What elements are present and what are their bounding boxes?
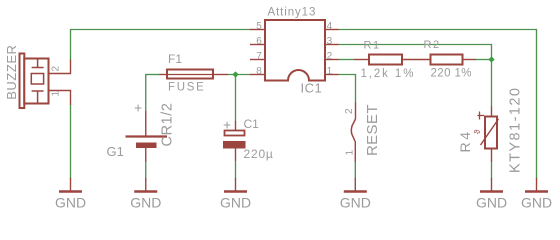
svg-text:4: 4: [327, 21, 333, 32]
svg-text:KTY81-120: KTY81-120: [508, 87, 524, 173]
wire IC pin2 to R1: [339, 59, 355, 61]
svg-text:ϑ: ϑ: [473, 129, 482, 134]
wire buzzer pin1 to GND: [70, 105, 72, 179]
wire junction down to R4: [491, 60, 493, 108]
svg-text:+: +: [223, 117, 231, 133]
wire switch to GND: [354, 162, 356, 179]
ground buzzer: [55, 178, 86, 211]
buzzer pin 2: [49, 60, 71, 74]
svg-text:5: 5: [256, 21, 262, 32]
resistor R1: [354, 40, 415, 81]
wire buzzer pin2 to IC pin5: [71, 30, 251, 60]
svg-text:2: 2: [51, 66, 62, 72]
wire fuse to junction to IC pin8: [228, 74, 250, 76]
svg-text:BUZZER: BUZZER: [4, 44, 19, 99]
svg-text:2: 2: [344, 108, 355, 114]
wire R2 to junction: [476, 59, 492, 61]
svg-text:GND: GND: [220, 195, 251, 211]
battery G1: [107, 100, 176, 163]
wire junction down to C1: [235, 75, 237, 122]
svg-text:1,2k 1%: 1,2k 1%: [361, 68, 416, 80]
wire battery to GND: [145, 162, 147, 179]
IC1 pin 8: [250, 74, 265, 76]
ground switch: [340, 178, 371, 211]
svg-text:GND: GND: [55, 195, 86, 211]
wire fuse net left horizontal: [145, 74, 160, 76]
svg-text:GND: GND: [340, 195, 371, 211]
svg-text:FUSE: FUSE: [168, 82, 205, 94]
svg-text:Attiny13: Attiny13: [268, 7, 317, 19]
svg-text:3: 3: [327, 36, 333, 47]
IC1 pin 5: [250, 29, 265, 31]
IC1 pin 1: [325, 74, 339, 76]
op IC1 Attiny13 body: [265, 20, 325, 81]
svg-text:2: 2: [327, 51, 333, 62]
junction at R2/R4: [488, 56, 494, 62]
svg-text:6: 6: [256, 36, 262, 47]
junction at fuse/C1: [232, 71, 238, 77]
IC1 pin 3: [325, 44, 339, 46]
svg-text:C1: C1: [244, 117, 260, 131]
ground R4: [476, 178, 507, 211]
svg-text:1: 1: [327, 66, 333, 77]
switch S1 RESET: [344, 103, 381, 163]
wire R4 to GND: [491, 162, 493, 179]
svg-text:R4: R4: [457, 129, 473, 152]
svg-text:GND: GND: [476, 195, 507, 211]
svg-text:R2: R2: [424, 39, 441, 51]
capacitor C1: [223, 117, 274, 162]
buzzer piezo element: [31, 59, 43, 103]
svg-text:GND: GND: [521, 195, 552, 211]
svg-text:G1: G1: [107, 144, 124, 159]
wire C1 to GND: [235, 161, 237, 179]
svg-text:R1: R1: [364, 40, 381, 52]
svg-text:1: 1: [345, 150, 356, 156]
svg-text:+: +: [134, 100, 142, 116]
svg-text:RESET: RESET: [364, 104, 381, 156]
svg-text:220µ: 220µ: [244, 147, 274, 161]
IC1 pin 6: [250, 44, 265, 46]
svg-text:F1: F1: [168, 52, 182, 66]
wire IC pin3 to junction: [339, 45, 492, 60]
fuse F1: [160, 52, 229, 94]
svg-text:7: 7: [256, 51, 262, 62]
wire R1 to R2: [402, 59, 431, 61]
svg-text:GND: GND: [130, 195, 161, 211]
IC1 pin 2: [325, 59, 339, 61]
resistor R2: [424, 39, 477, 80]
svg-text:IC1: IC1: [301, 81, 323, 96]
svg-text:CR1/2: CR1/2: [160, 102, 176, 146]
ground C1: [220, 178, 251, 211]
wire IC pin4 to right GND: [339, 30, 537, 180]
thermistor R4 KTY81-120: [457, 87, 524, 173]
svg-text:220 1%: 220 1%: [431, 68, 472, 80]
wire IC pin1 to switch: [339, 75, 356, 104]
buzzer body: [24, 59, 48, 104]
ground battery: [130, 178, 161, 211]
buzzer pin 1: [49, 91, 71, 106]
svg-text:8: 8: [256, 66, 262, 77]
IC1 pin 7: [250, 59, 265, 61]
ground right: [521, 178, 552, 211]
svg-text:1: 1: [51, 91, 62, 97]
IC1 pin 4: [325, 29, 339, 31]
wire fuse-left to battery: [145, 75, 147, 113]
buzzer left bar: [20, 54, 25, 109]
